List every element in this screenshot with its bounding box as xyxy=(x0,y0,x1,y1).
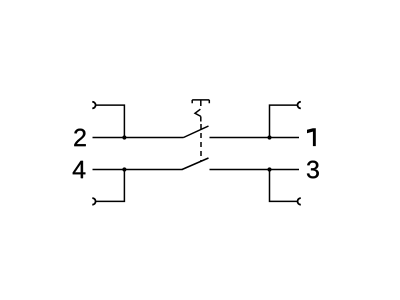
wire from terminal 4 to contact xyxy=(93,169,183,171)
node junction on wire 4 xyxy=(122,167,126,171)
socket contact lower-right xyxy=(298,198,301,205)
node junction on wire 1 xyxy=(267,135,271,139)
wire stub lower-left plug xyxy=(95,170,124,202)
wire stub upper-right plug xyxy=(270,105,298,137)
actuator chevron (latching detent) xyxy=(195,109,201,116)
terminal label 1 xyxy=(307,128,316,146)
wire from contact to terminal 1 xyxy=(210,137,300,139)
wire from terminal 2 to contact xyxy=(93,137,184,139)
terminal label 4 xyxy=(73,161,86,178)
socket contact upper-left xyxy=(92,102,95,109)
socket contact lower-left xyxy=(92,198,95,205)
mechanical linkage dashed line xyxy=(200,124,202,162)
node junction on wire 2 xyxy=(122,135,126,139)
actuator stem xyxy=(200,100,202,106)
wire stub lower-right plug xyxy=(270,170,298,202)
terminal label 2 xyxy=(74,129,85,146)
switch S2 moving blade (pole 4-3) xyxy=(182,158,209,170)
wire stub upper-left plug xyxy=(95,105,124,137)
node junction on wire 3 xyxy=(267,167,271,171)
socket contact upper-right xyxy=(298,102,301,109)
switch S1 moving blade (pole 2-1) xyxy=(184,126,209,138)
actuator link solid segment xyxy=(200,116,202,121)
terminal label 3 xyxy=(307,161,319,179)
manual actuator T-bar xyxy=(192,100,209,103)
wire from contact to terminal 3 xyxy=(210,169,300,171)
